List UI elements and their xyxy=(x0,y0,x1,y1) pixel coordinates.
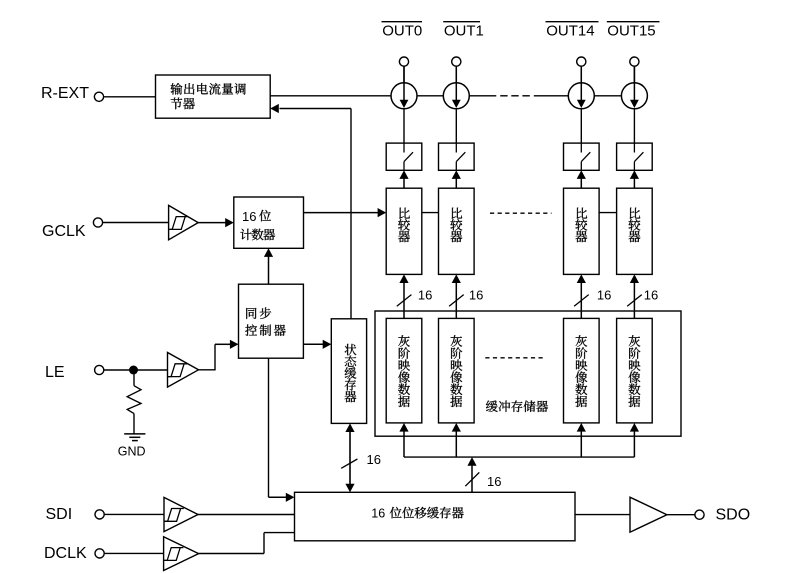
wire buffer to SDO terminal xyxy=(667,514,695,516)
terminal OUT14 xyxy=(577,57,586,66)
schmitt buffer SDI xyxy=(164,497,198,531)
wire terminal to current source xyxy=(580,66,582,83)
svg-text:R-EXT: R-EXT xyxy=(41,85,89,102)
block grayscale data 14 灰阶映像数据 xyxy=(564,318,600,423)
wire terminal to current source xyxy=(633,66,635,83)
terminal OUT1 xyxy=(452,57,461,66)
block grayscale data 1 灰阶映像数据 xyxy=(439,318,475,423)
comparator 15 xyxy=(617,188,653,274)
wire between OUT14 OUT15 sources xyxy=(594,95,621,97)
label 比较器 xyxy=(399,208,410,219)
label 灰阶映像数据 xyxy=(451,335,463,347)
wire current source to switch xyxy=(580,109,582,143)
bus grayscale data to comparator 16 xyxy=(403,282,405,318)
block sync controller 同步控制器 xyxy=(239,284,304,358)
wire dashed continuation xyxy=(500,95,507,97)
current source 1 xyxy=(443,83,469,109)
wire terminal to current source xyxy=(403,66,405,83)
current source 14 xyxy=(568,83,594,109)
svg-text:16: 16 xyxy=(367,452,381,467)
junction dot LE xyxy=(129,366,138,375)
wire LE to schmitt xyxy=(104,369,168,371)
wire R-EXT to regulator xyxy=(104,96,156,98)
wire current source to switch xyxy=(455,109,457,143)
wire comparator to switch xyxy=(633,179,635,189)
switch 1 xyxy=(439,143,475,170)
block output current regulator 输出电流量调节器 xyxy=(156,75,271,118)
svg-text:16: 16 xyxy=(418,288,432,303)
resistor pulldown LE xyxy=(133,374,135,386)
svg-text:GND: GND xyxy=(118,445,146,459)
current source 0 xyxy=(391,83,417,109)
svg-text:OUT1: OUT1 xyxy=(444,23,484,40)
switch 15 xyxy=(617,143,653,170)
wire LE schmitt to sync controller xyxy=(199,369,216,371)
terminal OUT15 xyxy=(630,57,639,66)
wire feedback from state buffer line to regulator xyxy=(280,108,352,110)
label 同步 xyxy=(246,308,256,319)
wire comparator1 to comparator2 xyxy=(422,212,439,214)
switch 14 xyxy=(564,143,600,170)
label 灰阶映像数据 xyxy=(576,335,588,347)
wire SDI to schmitt xyxy=(104,513,164,515)
svg-text:LE: LE xyxy=(45,364,65,381)
label 比较器 xyxy=(630,208,641,219)
label 灰阶映像数据 xyxy=(398,335,410,347)
label 灰阶映像数据 xyxy=(629,335,641,347)
svg-text:OUT15: OUT15 xyxy=(607,23,655,40)
buffer SDO xyxy=(630,497,667,532)
label 输出电流量调节器 xyxy=(171,83,183,95)
svg-text:16: 16 xyxy=(242,209,256,224)
block state buffer 状态缓存器 xyxy=(331,319,366,424)
wire regulator output to current sources xyxy=(270,95,391,97)
switch 0 xyxy=(386,143,422,170)
svg-text:16: 16 xyxy=(644,288,658,303)
wire counter to comparator1 xyxy=(304,212,379,214)
schmitt buffer DCLK xyxy=(164,537,199,571)
wire DCLK schmitt to shift register xyxy=(199,553,264,555)
svg-text:SDI: SDI xyxy=(46,506,73,523)
wire DCLK to schmitt xyxy=(104,552,163,554)
wire GCLK to schmitt xyxy=(103,222,169,224)
bus grayscale data to comparator 16 xyxy=(455,282,457,318)
svg-text:OUT0: OUT0 xyxy=(382,23,422,40)
block buffer memory container 缓冲存储器 xyxy=(375,311,681,436)
bus grayscale data to comparator 16 xyxy=(633,282,635,318)
wire sync controller to counter xyxy=(268,257,270,285)
wire comparator to switch xyxy=(580,179,582,189)
bus grayscale data to comparator 16 xyxy=(580,282,582,318)
svg-text:16: 16 xyxy=(597,288,611,303)
schmitt buffer LE xyxy=(168,353,199,388)
terminal SDO xyxy=(695,510,704,519)
wire current source to switch xyxy=(403,109,405,143)
wire SDI schmitt to shift register xyxy=(198,514,295,516)
svg-text:16: 16 xyxy=(469,288,483,303)
comparator 1 xyxy=(439,188,475,274)
wire sync controller to shift register xyxy=(268,358,270,497)
wire current source to switch xyxy=(633,109,635,143)
dashed continuation gray data xyxy=(485,357,545,359)
wire comparator to switch xyxy=(455,179,457,189)
wire sync controller to state buffer xyxy=(303,343,323,345)
block 16-bit shift register 16位位移缓存器 xyxy=(295,492,576,541)
label 计数器 xyxy=(240,229,252,240)
label 状态缓存器 xyxy=(345,344,357,355)
wire terminal to current source xyxy=(455,66,457,83)
terminal OUT0 xyxy=(399,57,408,66)
comparator 0 xyxy=(386,188,422,274)
current source 15 xyxy=(621,83,647,109)
svg-text:GCLK: GCLK xyxy=(42,223,86,240)
bus state buffer to shift register bidirectional 16 xyxy=(349,432,351,485)
svg-text:16: 16 xyxy=(371,506,385,520)
svg-text:16: 16 xyxy=(487,474,501,489)
wire schmitt to counter xyxy=(198,222,225,224)
schmitt buffer GCLK xyxy=(169,205,199,239)
label 比较器 xyxy=(577,208,588,219)
label 控制器 xyxy=(245,324,257,336)
wire comparator to switch xyxy=(403,179,405,189)
svg-text:OUT14: OUT14 xyxy=(546,23,594,40)
bus slash xyxy=(341,459,357,468)
svg-text:DCLK: DCLK xyxy=(44,545,87,562)
block grayscale data 0 灰阶映像数据 xyxy=(386,318,422,423)
wire comparator14 to comparator15 xyxy=(599,212,617,214)
block grayscale data 15 灰阶映像数据 xyxy=(617,318,653,423)
bus shift register up to memory bus xyxy=(471,465,473,492)
svg-text:SDO: SDO xyxy=(716,507,751,524)
wire vertical to state buffer xyxy=(350,109,352,319)
bus slash xyxy=(465,472,479,486)
label 缓冲存储器 xyxy=(486,401,498,413)
label 比较器 xyxy=(452,208,463,219)
block 16-bit counter 16位计数器 xyxy=(234,197,304,248)
dashed continuation comparators xyxy=(490,212,552,214)
wire shift register to SDO buffer xyxy=(575,514,630,516)
comparator 14 xyxy=(564,188,600,274)
bus shift register to buffer memory 16 xyxy=(404,456,634,458)
ground xyxy=(124,433,145,435)
